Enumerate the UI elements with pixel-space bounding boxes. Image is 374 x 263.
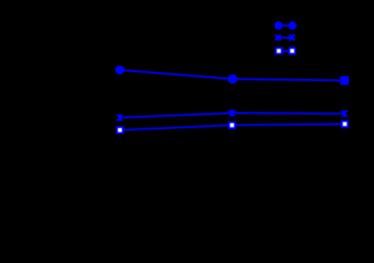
series 3 marker point 2 (white-filled square): [228, 121, 236, 129]
legend entry 2 marker b (x): [289, 35, 294, 41]
series 3 marker point 3 (white-filled square): [341, 120, 349, 128]
series 1 marker point 3 (filled square): [340, 76, 349, 85]
series 2 marker point 1 (x): [116, 115, 124, 121]
series 1 marker point 2 (circle): [228, 74, 238, 84]
series 3 line (white squares): [120, 124, 345, 130]
series 2 marker point 3 (x): [341, 110, 349, 116]
series 2 line (x markers): [120, 113, 345, 118]
legend entry 2 line: [278, 37, 292, 39]
legend entry 3 marker b (white-filled square): [288, 47, 296, 55]
series 1 marker point 1 (circle): [115, 66, 124, 75]
legend entry 1 line: [279, 25, 293, 27]
series 3 marker point 1 (white-filled square): [116, 126, 124, 134]
legend entry 2 marker a (x): [275, 35, 280, 41]
legend entry 1 marker b (circle): [288, 21, 296, 29]
series 1 line (circles): [120, 70, 345, 80]
legend entry 1 marker a (circle): [274, 21, 282, 29]
series 2 marker point 2 (x): [228, 110, 236, 116]
legend entry 3 marker a (white-filled square): [275, 47, 283, 55]
legend entry 3 line: [279, 50, 292, 52]
